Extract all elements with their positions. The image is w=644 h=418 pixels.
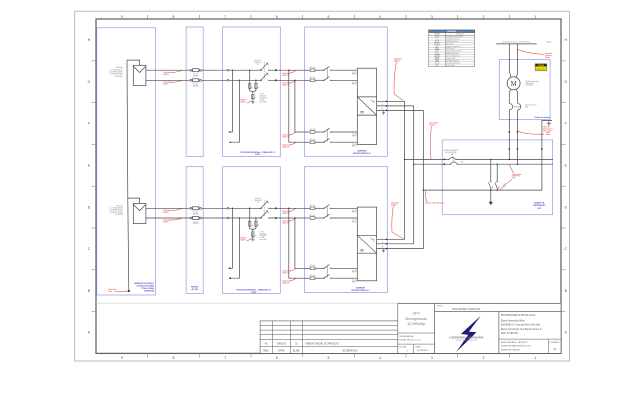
PV1 frame ground tap wire <box>127 60 140 65</box>
svg-text:DC+ IN: DC+ IN <box>352 270 357 272</box>
connector end - row 2 <box>229 277 231 279</box>
bus phase F1 after breaker <box>456 158 553 160</box>
node stub tap - row 1 <box>239 80 241 82</box>
svg-text:4: 4 <box>379 356 381 360</box>
main breaker DJ geral label <box>443 149 459 156</box>
red label bare copper ground cable <box>425 191 445 205</box>
fuse F2a positive string fuse <box>190 207 202 216</box>
meter breaker pole F1 <box>509 103 512 110</box>
svg-text:FUSIVEIS: FUSIVEIS <box>191 287 198 289</box>
connector circle string box input - row 2 <box>227 217 229 219</box>
main breaker DJ geral pole F1 <box>448 157 456 160</box>
inverter input switch MPPT-B- row 2 <box>315 274 358 278</box>
red cable label - after string box row 2 <box>282 218 296 224</box>
svg-text:27 x 385Wp JINKO: 27 x 385Wp JINKO <box>109 210 123 212</box>
PV frame ground down-conductor <box>127 60 129 291</box>
node stub tap + row 2 <box>232 208 234 210</box>
svg-text:G: G <box>564 80 567 84</box>
node F1 wire marker <box>508 148 510 150</box>
svg-text:2 DPS: 2 DPS <box>260 231 264 233</box>
svg-text:1: 1 <box>534 356 536 360</box>
DC disconnect switch CH2 label <box>254 198 262 204</box>
zone box metering (Padrao de Entrada) <box>499 60 550 120</box>
wire AC trunk N vertical <box>413 106 415 244</box>
red label meter cable <box>518 131 544 134</box>
inverter input fuse MPPT-B+ row 1 <box>305 128 316 134</box>
inner drawing frame <box>96 19 561 353</box>
svg-text:8: 8 <box>173 356 175 360</box>
wire + switch to box edge row 2 <box>269 207 305 209</box>
wire stub connector - row 1 <box>230 80 239 142</box>
node feed tap - row 1 <box>294 80 296 82</box>
meter label <box>526 80 539 87</box>
svg-text:1 x 27 MODULOS: 1 x 27 MODULOS <box>110 208 123 210</box>
wire service drop F1 <box>509 44 511 78</box>
svg-text:S.B.01: S.B.01 <box>255 154 260 156</box>
node tap SPD - row 1 <box>255 80 257 82</box>
svg-text:10mm: 10mm <box>546 134 551 136</box>
svg-text:DC+ IN: DC+ IN <box>352 220 357 222</box>
svg-text:NOME: RENAN ZINDON LUIZ: NOME: RENAN ZINDON LUIZ <box>501 345 531 348</box>
inverter U2 AC output PE <box>377 247 424 250</box>
ground symbol string box row 2 <box>251 239 255 241</box>
svg-text:Fusivel gPV: Fusivel gPV <box>446 43 453 45</box>
wire PV1- from panel to fuse <box>146 79 190 81</box>
red cable label MPPT-B - row 1 <box>282 142 296 148</box>
inverter input switch MPPT-A- row 1 <box>315 77 358 81</box>
svg-text:DC+ IN: DC+ IN <box>352 210 357 212</box>
inverter input label MPPT-A+ row 1 <box>352 72 357 76</box>
svg-text:PROPRIETARIO E INSTALACAO:: PROPRIETARIO E INSTALACAO: <box>501 314 536 317</box>
svg-text:Cabo 6mm: Cabo 6mm <box>163 82 172 84</box>
svg-text:(MPPT): (MPPT) <box>352 146 357 148</box>
wire PV2+ fuse to string box <box>201 207 227 209</box>
svg-text:1,8kV CC: 1,8kV CC <box>282 283 290 285</box>
caption inverter bottom row <box>352 287 370 292</box>
svg-text:27 x 385Wp JINKO: 27 x 385Wp JINKO <box>109 72 123 74</box>
terminal square + row 2 <box>275 207 277 209</box>
svg-text:1,8kV CC: 1,8kV CC <box>282 136 290 138</box>
logo box <box>435 312 499 354</box>
PV2 frame ground tap wire <box>128 198 140 203</box>
svg-text:DC+ IN: DC+ IN <box>352 134 357 136</box>
wire - switch to box edge row 2 <box>269 217 305 219</box>
svg-text:Inversor de frequencia: Inversor de frequencia <box>446 55 460 57</box>
svg-text:ENDERECO: Fazenda Morro Alto S: ENDERECO: Fazenda Morro Alto Sitio <box>501 324 541 327</box>
red label AC feeder cable <box>429 123 439 159</box>
svg-text:10,395kWp: 10,395kWp <box>407 322 425 326</box>
svg-text:Eliane Aparecida Hilela: Eliane Aparecida Hilela <box>501 319 525 322</box>
inverter input label MPPT-B+ row 1 <box>352 134 357 138</box>
svg-text:FRONIUS PRIMO 8.2-1: FRONIUS PRIMO 8.2-1 <box>353 153 371 155</box>
bus PE <box>423 189 542 191</box>
terminal square - row 1 <box>275 79 277 81</box>
node F2 on bus <box>517 163 519 165</box>
red AC cable label inverter U1 <box>394 57 404 100</box>
inverter input fuse MPPT-A- row 1 <box>305 76 316 82</box>
red cable label + after string box row 1 <box>282 70 296 76</box>
svg-text:Cabo 6mm: Cabo 6mm <box>163 219 172 221</box>
svg-text:Simbolo: Simbolo <box>434 34 440 36</box>
company logo lightning bolt <box>456 316 481 352</box>
zone box string box CC top row <box>223 27 281 157</box>
svg-text:1: 1 <box>534 15 536 19</box>
wire stub connector + row 1 <box>230 70 233 132</box>
load breaker DJ2 <box>495 181 499 190</box>
red cable label - after string box row 1 <box>282 81 296 87</box>
energy meter M <box>507 77 520 90</box>
wire SPD join row 2 <box>250 227 256 229</box>
svg-text:(MPPT): (MPPT) <box>352 282 357 284</box>
inverter input switch MPPT-A+ row 2 <box>315 205 358 209</box>
node trunk PE to PE bus <box>423 189 425 191</box>
wire tap to SPD + row 2 <box>249 208 251 221</box>
red AC cable label inverter U2 <box>391 201 404 238</box>
ground terminal square at array ground <box>128 290 130 292</box>
inverter input label MPPT-B+ row 2 <box>352 270 357 274</box>
PV string panel PV2 <box>133 204 146 224</box>
svg-text:FOLHA: FOLHA <box>399 346 406 349</box>
bus phase F2 after breaker <box>457 163 553 165</box>
svg-text:2P: 2P <box>257 202 259 204</box>
wire stub connector - row 2 <box>230 218 239 278</box>
node F1 on bus <box>509 159 511 161</box>
svg-text:5: 5 <box>328 15 330 19</box>
red label service entrance <box>518 49 553 59</box>
svg-text:27 MODULOS DE 385Wp: 27 MODULOS DE 385Wp <box>136 286 154 288</box>
node bus F1 entry terminal <box>443 159 445 161</box>
svg-text:Rede Baixa Tensao CPFL Mococa: Rede Baixa Tensao CPFL Mococa <box>502 41 531 43</box>
svg-text:DATA: DATA <box>278 349 285 352</box>
svg-text:8: 8 <box>173 15 175 19</box>
svg-text:DC+ IN: DC+ IN <box>352 72 357 74</box>
wire PV1+ from panel to fuse <box>146 69 190 71</box>
title strip divider line <box>96 302 561 304</box>
svg-text:0,6/1kV: 0,6/1kV <box>163 221 169 223</box>
svg-text:Cabo de Cobre Nu 10mm: Cabo de Cobre Nu 10mm <box>425 203 445 205</box>
switch link MPPT-A row 1 <box>326 68 328 80</box>
inverter input label MPPT-A- row 2 <box>352 220 357 224</box>
wire service drop F2 <box>516 44 517 77</box>
red cable label PV2- after panel <box>163 218 182 223</box>
svg-text:CREA: MG 98560D: CREA: MG 98560D <box>501 348 521 351</box>
svg-text:(ON GRID): (ON GRID) <box>115 214 123 216</box>
inverter input switch MPPT-B+ row 2 <box>315 265 358 269</box>
bus phase F1 <box>405 158 449 160</box>
terminal square F1 <box>509 131 511 133</box>
svg-text:(ON GRID): (ON GRID) <box>115 76 123 78</box>
red label array grounding <box>108 289 127 293</box>
wire AC trunk L vertical <box>404 101 406 239</box>
svg-text:7: 7 <box>224 15 226 19</box>
owner info box <box>499 312 561 354</box>
inverter input fuse MPPT-B- row 1 <box>305 138 316 144</box>
meter breaker pole F2 <box>518 103 521 110</box>
DC switch mechanical link row 2 <box>263 200 265 217</box>
svg-text:ALTERACAO: ALTERACAO <box>343 349 358 352</box>
DC disconnect switch CH1 pole - <box>260 73 270 81</box>
inverter input label MPPT-A+ row 2 <box>352 210 357 214</box>
inverter U2 PE ground symbol <box>382 249 385 253</box>
svg-text:UN 1000Vcc: UN 1000Vcc <box>260 98 268 100</box>
svg-text:Fusivel: Fusivel <box>193 74 198 76</box>
SPD spec text row 2 <box>260 231 268 241</box>
wire feed drop - to MPPT-B upper row 1 <box>295 80 305 132</box>
wire + inside string box row 1 <box>229 69 262 71</box>
svg-text:N: N <box>382 242 383 244</box>
svg-text:29/01/19: 29/01/19 <box>277 344 287 346</box>
meter breaker label <box>525 104 537 109</box>
svg-text:0,6/1kV: 0,6/1kV <box>163 212 169 214</box>
svg-text:Microgeracao: Microgeracao <box>405 317 427 321</box>
svg-text:Fusivel: Fusivel <box>193 84 198 86</box>
svg-text:FRONIUS PRIMO 8.2-1: FRONIUS PRIMO 8.2-1 <box>352 290 370 292</box>
node stub tap - row 2 <box>239 217 241 219</box>
ground rod symbol <box>547 121 551 127</box>
svg-text:DESENHISTA: DESENHISTA <box>399 335 413 338</box>
svg-text:S.B.02: S.B.02 <box>251 292 256 294</box>
wire - inside string box row 2 <box>229 217 262 219</box>
svg-text:Fusivel: Fusivel <box>193 221 198 223</box>
svg-text:Medidor bidirecional: Medidor bidirecional <box>446 53 459 55</box>
yellow warning sticker <box>535 64 547 71</box>
svg-text:Ramal de: Ramal de <box>545 53 552 55</box>
red label load cable <box>500 164 522 190</box>
svg-text:TITULO: TITULO <box>437 306 444 308</box>
switch link MPPT-B row 1 <box>326 130 328 142</box>
wire PV2+ from panel to fuse <box>146 207 190 209</box>
svg-text:Cabo 10mm: Cabo 10mm <box>512 174 522 176</box>
zone box string fuses top row <box>186 27 203 157</box>
utility grid bus <box>496 43 537 45</box>
svg-text:(MPPT): (MPPT) <box>352 221 357 223</box>
svg-text:1,8kV CC: 1,8kV CC <box>282 273 290 275</box>
svg-text:1,8kV CC: 1,8kV CC <box>282 147 290 149</box>
svg-text:4: 4 <box>379 15 381 19</box>
revision table <box>260 321 398 354</box>
svg-text:2P: 2P <box>257 64 259 66</box>
svg-text:DISTRIBUICAO: DISTRIBUICAO <box>533 204 546 207</box>
svg-text:(MPPT): (MPPT) <box>352 272 357 274</box>
node stub tap + row 1 <box>232 69 234 71</box>
inverter input fuse MPPT-A- row 2 <box>305 214 316 220</box>
svg-text:6: 6 <box>276 15 278 19</box>
main breaker mechanical link <box>453 156 454 161</box>
svg-text:QUADRO DE: QUADRO DE <box>534 202 545 205</box>
wire tap to SPD + row 1 <box>249 70 251 83</box>
svg-text:(MPPT): (MPPT) <box>352 135 357 137</box>
svg-text:Cabo 16mm: Cabo 16mm <box>429 123 439 125</box>
inverter input switch MPPT-B- row 1 <box>315 138 358 142</box>
wire to loads <box>490 190 492 202</box>
red cable label + after string box row 2 <box>282 209 296 215</box>
svg-text:UN 1000Vcc: UN 1000Vcc <box>260 235 268 237</box>
loads arrow <box>489 202 493 205</box>
svg-text:RESPONSAVEL TECNICO: RESPONSAVEL TECNICO <box>501 341 528 344</box>
svg-text:Descricao: Descricao <box>456 34 463 36</box>
svg-text:Chave seccionadora CC: Chave seccionadora CC <box>446 46 461 48</box>
svg-text:LEGENDA: LEGENDA <box>447 30 457 33</box>
inverter U1 AC output L <box>377 99 405 102</box>
format box A3 <box>549 339 560 353</box>
wire - inside string box row 1 <box>229 79 262 81</box>
surge protector DPS1b <box>255 84 259 90</box>
svg-text:Cabo 6mm: Cabo 6mm <box>163 72 172 74</box>
wire meter to breaker F1 <box>509 89 511 103</box>
svg-text:F: F <box>565 122 567 126</box>
red cable label PV2+ after panel <box>163 209 182 214</box>
connector circle string box input + row 2 <box>227 207 229 209</box>
wire feed drop - to MPPT-B upper row 2 <box>295 218 305 268</box>
inverter U2 body <box>357 207 376 281</box>
node load F1 on PE bus <box>490 189 492 191</box>
load branch drop F1 <box>490 159 492 182</box>
fuse F1b negative string fuse <box>190 79 202 88</box>
DC disconnect switch CH1 label <box>254 60 262 66</box>
DC switch mechanical link row 1 <box>263 62 265 80</box>
node trunk L to bus <box>404 159 406 161</box>
wire feed drop + to MPPT-B lower row 2 <box>289 208 305 278</box>
svg-text:LUIZENERGIA ENGENHARIA: LUIZENERGIA ENGENHARIA <box>449 337 484 340</box>
wire breaker to bus F2 <box>517 110 519 164</box>
svg-text:3: 3 <box>431 356 433 360</box>
svg-text:10/10/2019: 10/10/2019 <box>417 350 429 352</box>
svg-text:0,6/1kV: 0,6/1kV <box>163 84 169 86</box>
red label ground rod <box>543 126 553 133</box>
surge protector DPS2c to ground <box>252 229 256 238</box>
company logo text <box>449 337 484 342</box>
fuse F2b negative string fuse <box>190 217 202 226</box>
wire - switch to box edge row 1 <box>269 79 305 81</box>
svg-text:F: F <box>88 122 90 126</box>
inverter U1 AC output N <box>377 104 414 107</box>
inverter input switch MPPT-A+ row 1 <box>315 66 358 70</box>
zone box string box CC bottom row <box>223 167 281 294</box>
svg-text:DIAGRAMA UNIFILAR: DIAGRAMA UNIFILAR <box>452 307 480 311</box>
node tap SPD + row 2 <box>249 208 251 210</box>
inverter U2 AC output N <box>377 242 414 245</box>
zone box string fuses bottom row <box>186 167 203 294</box>
svg-text:CEP: 37180-000: CEP: 37180-000 <box>501 333 519 335</box>
zone box inverter bottom row <box>305 167 388 293</box>
svg-text:VERSAO INICIAL DO PROJETO: VERSAO INICIAL DO PROJETO <box>305 343 339 346</box>
svg-text:9: 9 <box>121 15 123 19</box>
zone box inverter top row <box>305 27 388 156</box>
PV string PV2 label <box>109 204 123 216</box>
wire PV2- fuse to string box <box>201 217 227 219</box>
node F2 wire marker <box>517 148 519 150</box>
inverter input switch MPPT-A- row 2 <box>315 214 358 218</box>
svg-text:Ligacao: Ligacao <box>545 55 551 57</box>
project data box GFV <box>398 304 435 354</box>
node feed tap + row 1 <box>288 69 290 71</box>
svg-text:Carga / saida: Carga / saida <box>446 65 454 67</box>
inverter U1 AC output PE <box>377 109 424 112</box>
red cable label MPPT-B + row 2 <box>282 269 296 275</box>
wire PV1+ fuse to string box <box>201 69 227 71</box>
red label DPS row 2 <box>241 237 252 241</box>
svg-text:G: G <box>88 80 91 84</box>
title box TITULO <box>435 304 561 312</box>
connector end - row 1 <box>229 141 231 143</box>
svg-text:Chave CC: Chave CC <box>254 60 262 62</box>
load branch drop F2 <box>496 163 498 181</box>
svg-text:7: 7 <box>224 356 226 360</box>
wire feed drop + to MPPT-B lower row 1 <box>289 70 305 142</box>
inverter input fuse MPPT-A+ row 1 <box>305 66 316 72</box>
terminal square + row 1 <box>275 69 277 71</box>
ground rod connection wire <box>542 121 552 191</box>
svg-text:Cabo 6mm: Cabo 6mm <box>108 289 117 291</box>
DC disconnect switch CH2 pole - <box>260 210 270 218</box>
svg-text:N: N <box>382 104 383 106</box>
ground symbol string box row 1 <box>251 101 255 103</box>
svg-text:ELAB.: ELAB. <box>293 349 300 352</box>
wire + inside string box row 2 <box>229 207 262 209</box>
svg-text:GFV: GFV <box>413 312 421 316</box>
wire meter to breaker F2 <box>516 89 517 103</box>
node trunk N to bus <box>413 163 415 165</box>
node bus F2 entry terminal <box>443 163 445 165</box>
svg-text:Fusivel: Fusivel <box>193 212 198 214</box>
connector end + row 2 <box>229 268 231 270</box>
svg-text:PE: PE <box>381 109 383 111</box>
node tap SPD - row 2 <box>255 217 257 219</box>
svg-text:Chave CC: Chave CC <box>254 198 262 200</box>
svg-text:0,6/1kV: 0,6/1kV <box>394 60 400 62</box>
wire PV2- from panel to fuse <box>146 217 190 219</box>
terminal square F2 <box>517 131 519 133</box>
node load F2 on PE bus <box>496 189 498 191</box>
svg-text:REV.: REV. <box>263 349 269 352</box>
svg-text:0,6/1kV: 0,6/1kV <box>391 204 397 206</box>
SPD spec text row 1 <box>260 94 268 104</box>
caption Gerador Fotovoltaico <box>134 282 155 293</box>
wire tap to SPD - row 1 <box>255 80 257 83</box>
svg-text:2: 2 <box>483 15 485 19</box>
DC disconnect switch CH2 pole + <box>260 201 270 209</box>
main breaker DJ geral pole F2 <box>450 162 458 165</box>
surge protector DPS2a <box>249 221 253 227</box>
inverter input label MPPT-B- row 2 <box>352 280 357 284</box>
inverter input switch MPPT-B+ row 1 <box>315 128 358 132</box>
node tap SPD + row 1 <box>249 69 251 71</box>
svg-text:DPS Classe II: DPS Classe II <box>446 48 455 50</box>
red label DPS row 1 <box>241 100 252 104</box>
meter breaker mechanical link <box>513 106 521 108</box>
svg-text:(MPPT): (MPPT) <box>352 74 357 76</box>
svg-text:6: 6 <box>276 356 278 360</box>
ruler zone ticks and numbers <box>88 15 568 360</box>
wire + switch to box edge row 1 <box>269 69 305 71</box>
zone box AC distribution board (QGBT) <box>442 140 552 215</box>
inverter U2 AC output L <box>377 237 405 240</box>
svg-text:FORMATO: FORMATO <box>550 341 560 344</box>
inverter U1 PE ground symbol <box>382 110 385 114</box>
node feed tap + row 2 <box>288 208 290 210</box>
svg-text:M: M <box>511 81 517 88</box>
PV string panel PV1 <box>133 65 146 85</box>
connector circle string box input + row 1 <box>227 69 229 71</box>
inverter input fuse MPPT-B- row 2 <box>305 274 316 280</box>
caption string box CC top row <box>241 151 276 156</box>
DC disconnect switch CH1 pole + <box>260 63 270 71</box>
inverter input label MPPT-A- row 1 <box>352 82 357 86</box>
wire PV1- fuse to string box <box>201 79 227 81</box>
red cable label MPPT-B + row 1 <box>282 132 296 138</box>
svg-text:1 x 27 MODULOS: 1 x 27 MODULOS <box>110 69 123 71</box>
svg-text:3: 3 <box>431 15 433 19</box>
